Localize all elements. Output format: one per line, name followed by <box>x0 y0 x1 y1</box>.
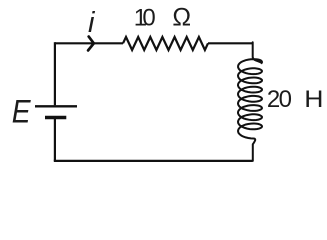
current direction arrowhead on top wire <box>88 37 94 51</box>
wire: top-left segment (battery branch to resistor) <box>55 42 123 44</box>
svg-text:0: 0 <box>142 5 155 32</box>
battery E: long thin positive plate <box>35 105 77 107</box>
wire: left side lower (battery - plate to bottom-left corner) <box>54 118 56 161</box>
inductor 20 H coil <box>238 42 262 161</box>
svg-text:E: E <box>12 94 31 130</box>
wire: top-right segment (resistor to top-right corner) <box>208 42 253 44</box>
resistor 10-ohm zigzag <box>123 37 208 50</box>
battery E: short thick negative plate <box>45 116 66 119</box>
wire: left side upper (top-left corner to battery + plate) <box>54 42 56 105</box>
svg-text:H: H <box>304 86 323 113</box>
svg-text:0: 0 <box>279 86 292 113</box>
svg-text:Ω: Ω <box>172 4 191 32</box>
wire: bottom (bottom-left corner to bottom-right corner) <box>54 160 253 162</box>
